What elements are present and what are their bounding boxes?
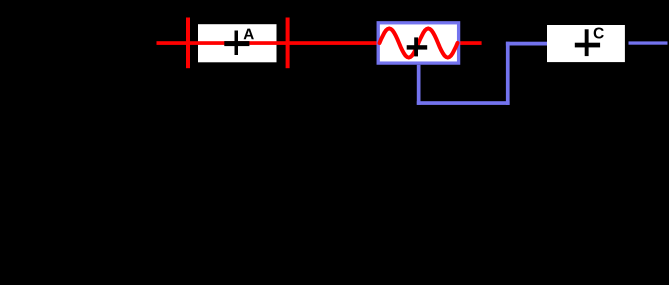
- adder C: plus symbol horizontal bar: [575, 43, 600, 48]
- label A: [244, 29, 254, 40]
- adder A: plus symbol vertical bar: [235, 31, 239, 56]
- block C body: [547, 25, 625, 62]
- wire: blue feedback drop from modulator bottom: [417, 65, 421, 105]
- wire: blue riser up to block C level: [506, 42, 510, 105]
- wire: blue horizontal into block C: [506, 42, 547, 46]
- adder A: plus symbol horizontal bar: [224, 41, 249, 46]
- label C: [594, 28, 604, 39]
- wire: blue output line at right: [629, 41, 668, 44]
- wire: main red signal line (left segment into modulator): [157, 41, 378, 45]
- adder B: plus symbol vertical bar inside modulator: [414, 37, 418, 56]
- wire: blue bottom horizontal run: [417, 101, 510, 105]
- wire: red segment out of modulator: [460, 41, 482, 45]
- carrier sine wave: [380, 29, 458, 58]
- modulator U1: bordered box: [378, 23, 458, 63]
- block A body: [198, 24, 277, 62]
- node tick: red junction marker right of block A: [286, 18, 290, 69]
- node tick: red junction marker left of block A: [186, 18, 190, 69]
- adder B: plus symbol horizontal bar inside modulator: [407, 45, 428, 49]
- adder C: plus symbol vertical bar: [585, 29, 589, 56]
